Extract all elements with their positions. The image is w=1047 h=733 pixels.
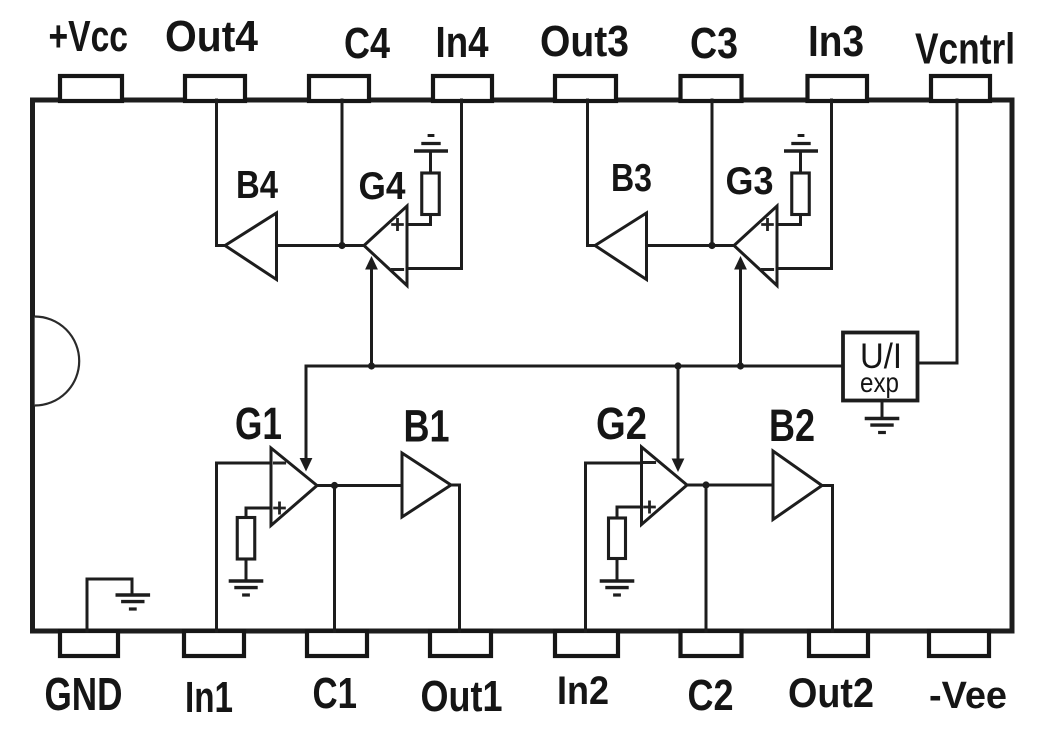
svg-text:Vcntrl: Vcntrl	[915, 25, 1015, 74]
svg-text:exp: exp	[860, 367, 899, 398]
svg-text:G2: G2	[596, 398, 647, 449]
svg-text:+Vcc: +Vcc	[49, 12, 129, 61]
svg-text:In4: In4	[436, 18, 489, 67]
G2 minus input mark	[643, 461, 656, 464]
svg-text:In2: In2	[557, 669, 609, 713]
wire resistor to inverted ground	[799, 151, 802, 173]
U/I exp converter block	[843, 333, 918, 401]
wire G3 plus input to resistor	[777, 215, 801, 225]
junction C1 node	[331, 482, 338, 489]
inverted ground above G3 resistor	[784, 149, 818, 152]
wire Out4 pin to B4 output	[217, 100, 226, 246]
wire C1 pin up	[333, 486, 336, 632]
pin C1 (bottom)	[307, 631, 367, 656]
wire resistor to ground	[616, 559, 619, 581]
wire In1 pin to G1 minus input	[217, 463, 272, 631]
svg-text:G3: G3	[726, 160, 774, 203]
pin Out1 (bottom)	[430, 631, 491, 656]
wire control bus down to G1	[305, 366, 308, 459]
svg-text:B3: B3	[611, 157, 652, 200]
pin C3 (top)	[681, 76, 742, 101]
buffer B4	[225, 213, 277, 280]
arrow into G2 top slope	[672, 459, 685, 473]
wire In2 pin to G2 minus input	[586, 463, 642, 631]
wire C2 pin up	[705, 485, 708, 631]
wire C4 pin down	[341, 100, 344, 246]
gain cell G1	[271, 448, 317, 526]
pin C2 (bottom)	[681, 631, 742, 656]
chip ground symbol	[116, 593, 151, 597]
wire ground stem	[131, 579, 134, 594]
junction bus-G3 node	[737, 362, 744, 369]
junction bus-G4 node	[368, 362, 375, 369]
svg-text:Out3: Out3	[540, 17, 629, 66]
ground below G1 resistor	[229, 579, 264, 583]
pin-1 notch (left edge semicircle)	[35, 317, 80, 406]
G1 minus input mark	[273, 462, 286, 465]
pin Vcntrl (top)	[931, 76, 990, 101]
arrow into G4 bottom slope	[365, 256, 378, 270]
junction C2 node	[702, 481, 709, 488]
resistor at G1 plus input	[237, 518, 255, 560]
IC body outline	[33, 100, 1013, 631]
wire In4 pin to G4 minus input	[407, 100, 462, 269]
G4 minus input mark	[391, 268, 404, 271]
junction C4 node	[338, 242, 345, 249]
svg-text:In1: In1	[185, 673, 233, 722]
pin Out4 (top)	[185, 76, 245, 101]
ground below G2 resistor	[600, 579, 635, 583]
wire G2 plus input to resistor	[617, 507, 642, 518]
svg-text:GND: GND	[45, 668, 123, 720]
wire GND pin up	[87, 579, 132, 631]
wire control bus up to G4	[370, 267, 373, 366]
wire G1 output to B1 input	[317, 484, 402, 487]
svg-text:B4: B4	[236, 164, 278, 207]
arrow into G3 bottom slope	[734, 256, 747, 270]
wire resistor to inverted ground	[429, 151, 432, 173]
pin In2 (bottom)	[555, 631, 618, 656]
svg-text:B1: B1	[404, 401, 450, 452]
control bus wire	[306, 365, 843, 368]
wire B3 input to G3 output	[647, 244, 735, 247]
svg-text:G4: G4	[359, 165, 406, 208]
resistor at G4 plus input	[422, 173, 440, 215]
gain cell G3	[734, 206, 777, 286]
G3 minus input mark	[761, 268, 774, 271]
svg-text:G1: G1	[235, 398, 282, 449]
wire B1 output to Out1 pin	[451, 485, 460, 631]
G4 plus input mark	[391, 218, 404, 231]
gain cell G4	[364, 206, 407, 286]
svg-text:Out4: Out4	[165, 12, 258, 61]
wire control bus up to G3	[739, 267, 742, 366]
G1 plus input mark	[273, 502, 286, 515]
arrow into G1 top slope	[300, 458, 313, 472]
resistor at G3 plus input	[792, 173, 810, 215]
wire Out3 pin to B3 output	[588, 100, 596, 246]
svg-text:C3: C3	[690, 19, 738, 68]
pin GND (bottom)	[60, 631, 118, 656]
wire G2 output to B2 input	[687, 484, 773, 487]
buffer B1	[402, 453, 451, 517]
pin In4 (top)	[433, 76, 492, 101]
pin -Vee (bottom)	[929, 631, 989, 656]
G2 plus input mark	[643, 501, 656, 514]
inverted ground above G4 resistor	[414, 149, 448, 152]
pin Out2 (bottom)	[809, 631, 868, 656]
gain cell G2	[642, 447, 688, 525]
G3 plus input mark	[761, 218, 774, 231]
junction bus-G2 node	[674, 362, 681, 369]
svg-text:-Vee: -Vee	[929, 675, 1007, 717]
wire U/I exp block to ground	[881, 401, 884, 418]
svg-text:C2: C2	[688, 671, 734, 720]
wire Vcntrl pin to U/I exp block	[918, 100, 958, 363]
pin C4 (top)	[309, 76, 369, 101]
pin In3 (top)	[808, 76, 868, 101]
buffer B3	[595, 213, 647, 280]
pin In1 (bottom)	[184, 631, 244, 656]
wire C3 pin down	[711, 100, 714, 246]
svg-text:C1: C1	[313, 669, 358, 718]
svg-text:In3: In3	[808, 17, 864, 66]
wire B2 output to Out2 pin	[822, 486, 833, 632]
svg-text:C4: C4	[344, 19, 390, 68]
svg-text:Out1: Out1	[421, 672, 503, 721]
junction C3 node	[708, 242, 715, 249]
resistor at G2 plus input	[609, 518, 626, 559]
wire resistor to ground	[245, 559, 248, 580]
pin Out3 (top)	[555, 76, 616, 101]
wire G1 plus input to resistor	[246, 508, 271, 518]
pin +Vcc (top)	[60, 76, 122, 101]
wire B4 input to G4 output	[277, 244, 365, 247]
svg-text:Out2: Out2	[788, 669, 874, 716]
svg-text:B2: B2	[769, 400, 815, 451]
wire In3 pin to G3 minus input	[777, 100, 832, 269]
wire G4 plus input to resistor	[407, 215, 431, 225]
wire control bus down to G2	[677, 366, 680, 459]
ground below U/I exp block	[865, 417, 900, 421]
buffer B2	[773, 451, 822, 520]
